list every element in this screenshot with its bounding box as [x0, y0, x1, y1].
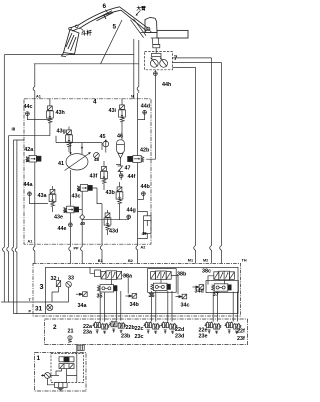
right bus line 1 — [210, 58, 212, 264]
svg-text:A2: A2 — [141, 246, 146, 250]
spool valve 37 — [212, 284, 232, 291]
svg-text:23c: 23c — [135, 334, 144, 340]
valve 43g — [66, 130, 73, 147]
svg-text:22d: 22d — [175, 327, 184, 333]
svg-text:1: 1 — [37, 355, 41, 362]
boom pivot — [147, 27, 150, 30]
wire — [68, 127, 70, 153]
svg-text:45: 45 — [100, 134, 106, 140]
wire — [82, 219, 129, 221]
svg-text:斗杆: 斗杆 — [81, 29, 92, 37]
pilot pair 22d 23d — [161, 322, 177, 334]
svg-text:38c: 38c — [202, 269, 211, 275]
stick cylinder rods to body — [101, 19, 146, 64]
svg-text:44b: 44b — [141, 184, 151, 190]
pump P2 — [160, 57, 168, 67]
crossing risers section break — [33, 244, 35, 263]
svg-text:43c: 43c — [72, 194, 81, 200]
boom — [78, 7, 149, 31]
platform — [141, 31, 158, 33]
valve 43c — [77, 185, 92, 192]
left riser 4 — [15, 140, 17, 314]
left riser A1 — [33, 64, 35, 244]
svg-text:22c: 22c — [135, 326, 144, 332]
valve 43a — [49, 189, 56, 206]
left riser 1 — [3, 55, 5, 302]
svg-text:大臂: 大臂 — [137, 5, 147, 12]
check valve 47 — [118, 166, 124, 172]
svg-text:49: 49 — [142, 231, 148, 236]
svg-text:33: 33 — [68, 276, 74, 282]
pilot pair 22c 23c — [144, 322, 160, 334]
valve 43f — [101, 166, 108, 183]
left riser 3 — [12, 140, 14, 314]
wire — [27, 116, 50, 120]
wire — [49, 99, 51, 136]
box 2 boundary — [45, 319, 248, 345]
svg-text:34d: 34d — [195, 289, 204, 295]
wire — [14, 139, 25, 141]
svg-text:A1: A1 — [36, 95, 41, 99]
svg-text:TH: TH — [242, 258, 247, 262]
inner housing — [46, 267, 239, 313]
sensor 44f — [119, 174, 123, 178]
riser to B1 — [100, 204, 102, 264]
valve row a — [59, 357, 74, 362]
wire — [121, 99, 123, 140]
housing 37 — [206, 281, 238, 293]
check valve 40 — [81, 191, 83, 244]
svg-text:43f: 43f — [90, 174, 98, 180]
riser drops to remote valves — [100, 292, 104, 321]
wire — [208, 276, 224, 285]
box 3 boundary — [33, 263, 241, 316]
stick label 斗杆 — [80, 28, 84, 31]
pilot box 38a — [95, 270, 101, 277]
housing 38b 36 — [148, 269, 177, 293]
pump outlet wire to right bus 2 — [172, 62, 221, 64]
svg-text:35: 35 — [97, 294, 103, 300]
pilot pair 22f 23f — [225, 322, 241, 334]
svg-text:2: 2 — [53, 324, 57, 331]
spool valve 35 — [97, 285, 117, 292]
svg-text:B1: B1 — [98, 259, 103, 263]
pilot pair 22e 23e — [205, 322, 221, 334]
relief block — [55, 383, 68, 391]
svg-text:III: III — [12, 127, 16, 132]
drop from box2 to box1 — [76, 345, 78, 382]
tank T1 — [77, 345, 84, 350]
svg-text:3: 3 — [40, 282, 44, 291]
right bus line 3 — [194, 67, 196, 263]
spool valve 36 — [151, 283, 171, 290]
valve 43i — [119, 105, 126, 122]
glyph 34a — [76, 292, 87, 297]
cylinder 49 — [144, 216, 151, 234]
svg-text:M2: M2 — [203, 258, 208, 262]
svg-text:44g: 44g — [127, 208, 136, 214]
right bus line 2 — [220, 63, 222, 264]
svg-text:44f: 44f — [128, 174, 136, 180]
boom cylinder — [96, 11, 114, 21]
glyph 34d — [193, 285, 204, 290]
pump outlet wire to right bus 1 — [172, 57, 211, 59]
valve 42a — [26, 155, 41, 162]
cab — [145, 17, 157, 32]
manifold boundary 4 — [24, 99, 151, 244]
svg-text:5: 5 — [113, 24, 117, 31]
svg-text:N: N — [131, 95, 134, 99]
svg-text:43g: 43g — [57, 129, 66, 135]
svg-text:48: 48 — [94, 157, 100, 162]
wire — [112, 275, 129, 293]
glyph 34c — [176, 294, 187, 299]
svg-text:40: 40 — [80, 221, 86, 226]
counterweight — [157, 30, 188, 38]
gauge 48 — [94, 153, 100, 159]
svg-text:43i: 43i — [109, 108, 117, 114]
hose line from bucket cylinder down left side — [4, 54, 100, 56]
svg-text:23e: 23e — [199, 333, 208, 339]
svg-text:34a: 34a — [78, 303, 88, 309]
svg-text:23d: 23d — [175, 334, 184, 340]
wires — [47, 369, 76, 385]
pilot pair 22b 23b — [109, 321, 125, 333]
svg-text:22f: 22f — [237, 329, 245, 335]
bucket link pins — [69, 28, 72, 31]
pump unit box 7 — [145, 52, 173, 70]
svg-text:42b: 42b — [140, 148, 150, 154]
valve 43h — [47, 106, 54, 123]
stick (dipper) — [71, 25, 79, 31]
pump drive link — [152, 48, 161, 57]
svg-text:41: 41 — [58, 161, 64, 167]
svg-text:23a: 23a — [83, 330, 93, 336]
wire — [161, 276, 178, 295]
feed pump — [41, 373, 50, 379]
spool valve 38c — [214, 271, 235, 280]
svg-text:PP: PP — [74, 247, 80, 251]
svg-text:42a: 42a — [24, 147, 34, 153]
svg-text:43a: 43a — [38, 193, 48, 199]
left riser 2 — [7, 136, 9, 302]
inner dashed housing — [51, 354, 84, 383]
pilot pair 22a 23a — [93, 322, 109, 334]
wire — [46, 292, 69, 302]
boom hose riser N — [133, 39, 135, 99]
svg-text:44e: 44e — [58, 226, 67, 232]
svg-text:43b: 43b — [106, 190, 116, 196]
svg-text:44a: 44a — [24, 182, 34, 188]
pump outlet wire to right bus 3 — [172, 66, 195, 68]
44h sensor — [154, 72, 158, 76]
svg-text:B2: B2 — [128, 259, 133, 263]
spool valve 38a — [101, 271, 122, 280]
svg-text:23f: 23f — [237, 336, 245, 342]
svg-text:M1: M1 — [188, 258, 193, 262]
svg-text:34c: 34c — [181, 303, 190, 309]
svg-text:6: 6 — [103, 3, 107, 10]
valve 43b — [116, 187, 123, 204]
svg-text:43h: 43h — [56, 110, 65, 116]
P supply line — [14, 313, 46, 315]
svg-text:34b: 34b — [130, 302, 140, 308]
svg-text:4: 4 — [93, 99, 97, 106]
svg-text:47: 47 — [125, 166, 131, 172]
valve row b — [59, 364, 74, 369]
under carriage column — [152, 38, 159, 44]
valve 43d — [104, 213, 111, 230]
stick hose riser — [137, 40, 139, 93]
glyph 34b — [126, 294, 137, 299]
pump control link — [56, 136, 102, 150]
valve 43e — [64, 206, 79, 213]
valve 42b on riser — [128, 156, 144, 163]
riser to 42b and A2 — [137, 93, 139, 244]
svg-text:38b: 38b — [177, 272, 187, 278]
bucket — [62, 30, 80, 57]
svg-text:44c: 44c — [24, 104, 33, 110]
spool valve 38b — [151, 271, 172, 280]
svg-text:37: 37 — [213, 292, 219, 298]
pump P1 — [150, 57, 158, 67]
svg-text:21: 21 — [68, 329, 74, 335]
svg-text:43d: 43d — [109, 229, 118, 235]
box 1 boundary — [35, 352, 87, 391]
svg-text:44h: 44h — [162, 82, 171, 88]
hose line 2 — [34, 63, 139, 65]
svg-text:A1: A1 — [28, 240, 33, 244]
svg-text:23b: 23b — [121, 334, 131, 340]
T supply line — [1, 301, 46, 303]
main pump 41 — [65, 146, 91, 171]
svg-text:46: 46 — [117, 134, 123, 140]
svg-text:31: 31 — [35, 306, 43, 313]
svg-text:43e: 43e — [54, 215, 63, 221]
svg-text:7: 7 — [174, 55, 178, 62]
svg-text:32: 32 — [51, 276, 57, 282]
pilot line III horizontal — [8, 135, 50, 137]
svg-text:44d: 44d — [141, 104, 150, 110]
